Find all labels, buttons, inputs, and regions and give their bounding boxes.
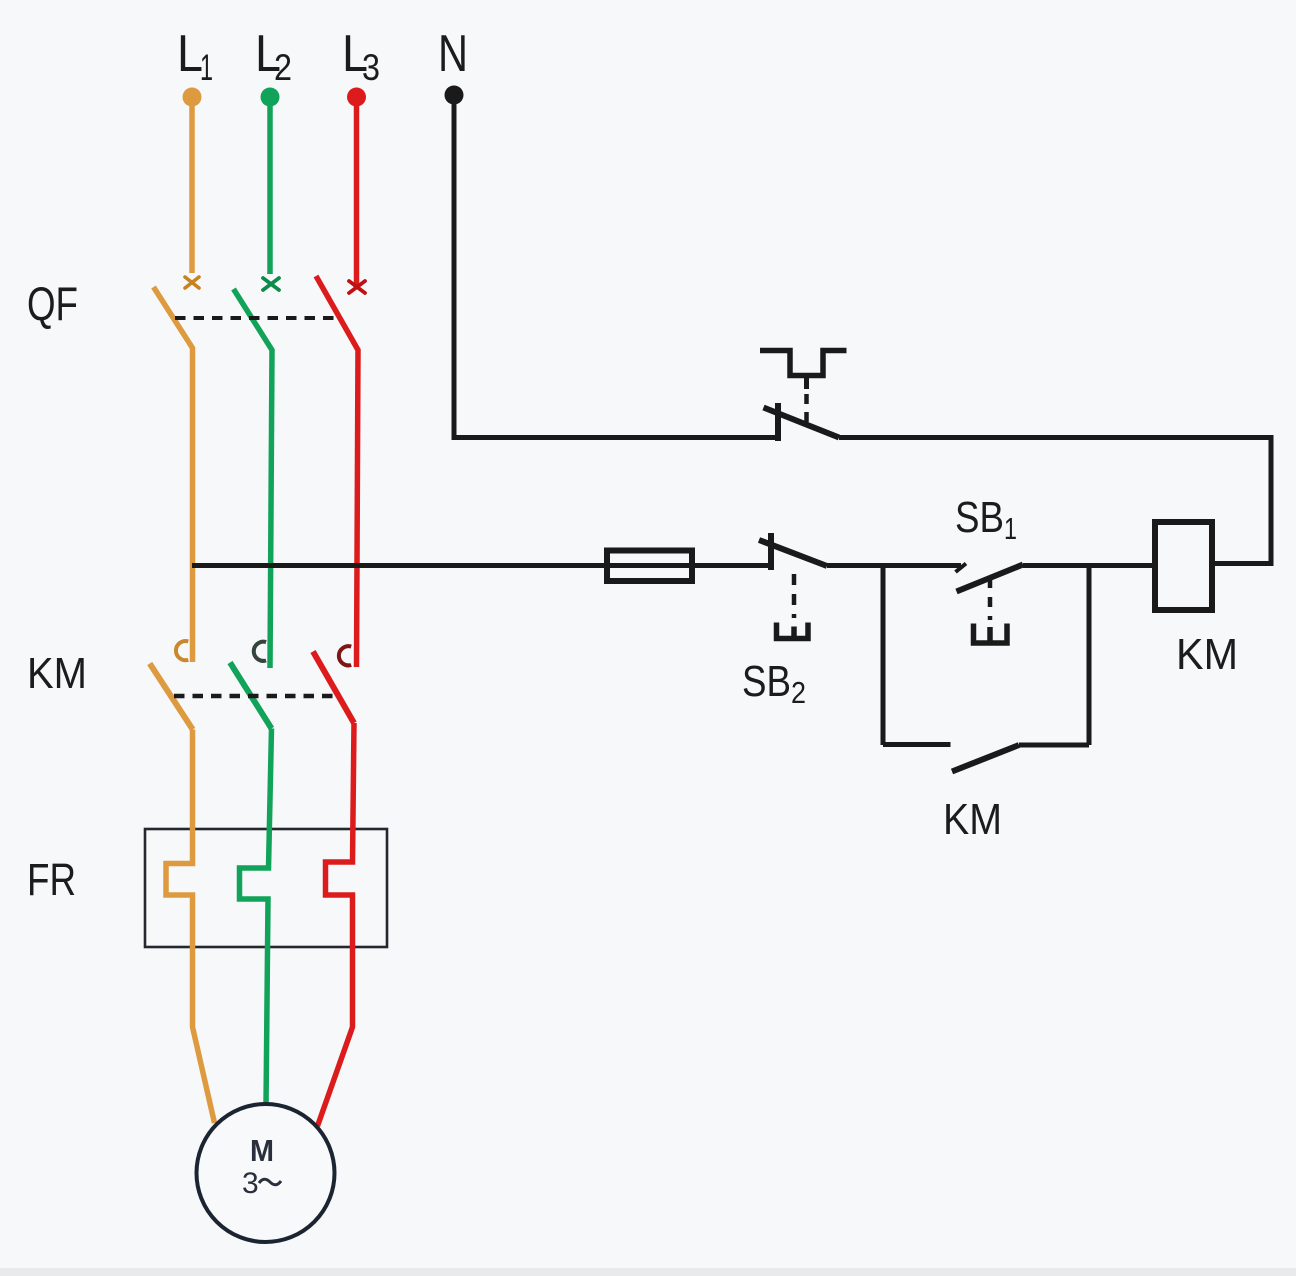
svg-text:3: 3 bbox=[242, 1167, 259, 1200]
svg-text:M: M bbox=[250, 1133, 274, 1168]
svg-text:KM: KM bbox=[27, 649, 87, 698]
svg-text:QF: QF bbox=[27, 277, 78, 330]
thermal relay FR trip dashed bbox=[804, 394, 809, 424]
wire SB1 to coil bbox=[1023, 563, 1155, 568]
node L3 label bbox=[342, 25, 380, 88]
KM aux contact right wire bbox=[1019, 743, 1089, 748]
contactor KM pole 1 hook bbox=[176, 641, 188, 660]
stop button SB2 label bbox=[742, 657, 806, 710]
svg-text:1: 1 bbox=[1004, 511, 1017, 546]
wire SB2 to SB1 bbox=[827, 563, 961, 568]
contactor coil KM box bbox=[1155, 522, 1212, 610]
breaker QF linkage dashed bbox=[175, 316, 338, 320]
thermal relay FR trip stem bbox=[804, 376, 809, 390]
start button SB1 contact stub bbox=[956, 564, 967, 573]
contactor KM pole 3 blade bbox=[313, 652, 354, 724]
wire L3 incoming bbox=[354, 97, 360, 289]
contactor KM pole 3 hook bbox=[339, 646, 351, 665]
svg-text:2: 2 bbox=[274, 47, 292, 88]
thermal relay FR trip bracket bbox=[760, 351, 847, 376]
KM aux contact left wire bbox=[883, 742, 951, 747]
bottom edge strip bbox=[0, 1268, 1296, 1276]
wire L2 incoming bbox=[267, 97, 273, 274]
stop button SB2 fixed post bbox=[768, 533, 774, 570]
control line from L1 bbox=[192, 563, 771, 568]
wire L1 incoming bbox=[189, 97, 195, 273]
wire top to right bbox=[839, 438, 1271, 564]
start button SB1 actuator dashed bbox=[988, 578, 993, 620]
svg-text:KM: KM bbox=[1176, 630, 1238, 679]
breaker QF pole 2 blade bbox=[234, 289, 273, 668]
contactor KM pole 2 blade bbox=[230, 663, 272, 729]
QF terminal x-mark L1 bbox=[185, 277, 199, 288]
start button SB1 blade bbox=[957, 565, 1024, 592]
motor M circle bbox=[197, 1104, 335, 1242]
svg-text:SB: SB bbox=[955, 493, 1004, 542]
contactor KM linkage dashed bbox=[174, 694, 335, 699]
QF terminal x-mark L3 bbox=[349, 281, 365, 293]
thermal relay FR box bbox=[145, 829, 387, 947]
FR heater phase 1 + wire to motor bbox=[166, 730, 215, 1124]
junction branch right bbox=[1087, 566, 1092, 746]
svg-text:KM: KM bbox=[943, 795, 1002, 844]
svg-text:SB: SB bbox=[742, 657, 791, 706]
start button SB1 cap bbox=[974, 624, 1008, 644]
breaker QF pole 1 blade bbox=[154, 287, 193, 662]
node L1 label bbox=[177, 25, 213, 88]
terminal dot L2 bbox=[261, 88, 280, 107]
contactor KM pole 1 blade bbox=[150, 664, 193, 730]
svg-text:N: N bbox=[438, 25, 468, 83]
junction branch left bbox=[881, 566, 886, 746]
FR heater phase 2 + wire to motor bbox=[240, 729, 272, 1107]
breaker QF pole 3 blade bbox=[316, 276, 358, 667]
watermark bbox=[0, 0, 1, 1]
thermal relay FR trip contact blade bbox=[764, 408, 840, 438]
terminal dot L1 bbox=[183, 88, 202, 107]
terminal dot N bbox=[445, 86, 464, 105]
terminal dot L3 bbox=[347, 88, 366, 107]
svg-text:3: 3 bbox=[362, 47, 380, 88]
svg-text:2: 2 bbox=[791, 675, 806, 710]
thermal relay FR trip contact post bbox=[775, 403, 781, 441]
stop button SB2 blade bbox=[759, 540, 827, 566]
contactor KM pole 2 hook bbox=[254, 642, 266, 661]
QF terminal x-mark L2 bbox=[263, 278, 279, 290]
KM aux contact blade bbox=[952, 745, 1019, 772]
stop button SB2 cap bbox=[777, 623, 809, 639]
fuse FU bbox=[607, 551, 692, 582]
stop button SB2 actuator dashed bbox=[792, 574, 797, 618]
FR heater phase 3 + wire to motor bbox=[318, 723, 355, 1126]
wire N bbox=[454, 95, 777, 438]
node L2 label bbox=[255, 25, 292, 88]
svg-text:1: 1 bbox=[200, 47, 213, 88]
start button SB1 label bbox=[955, 493, 1017, 546]
svg-text:FR: FR bbox=[27, 854, 76, 905]
